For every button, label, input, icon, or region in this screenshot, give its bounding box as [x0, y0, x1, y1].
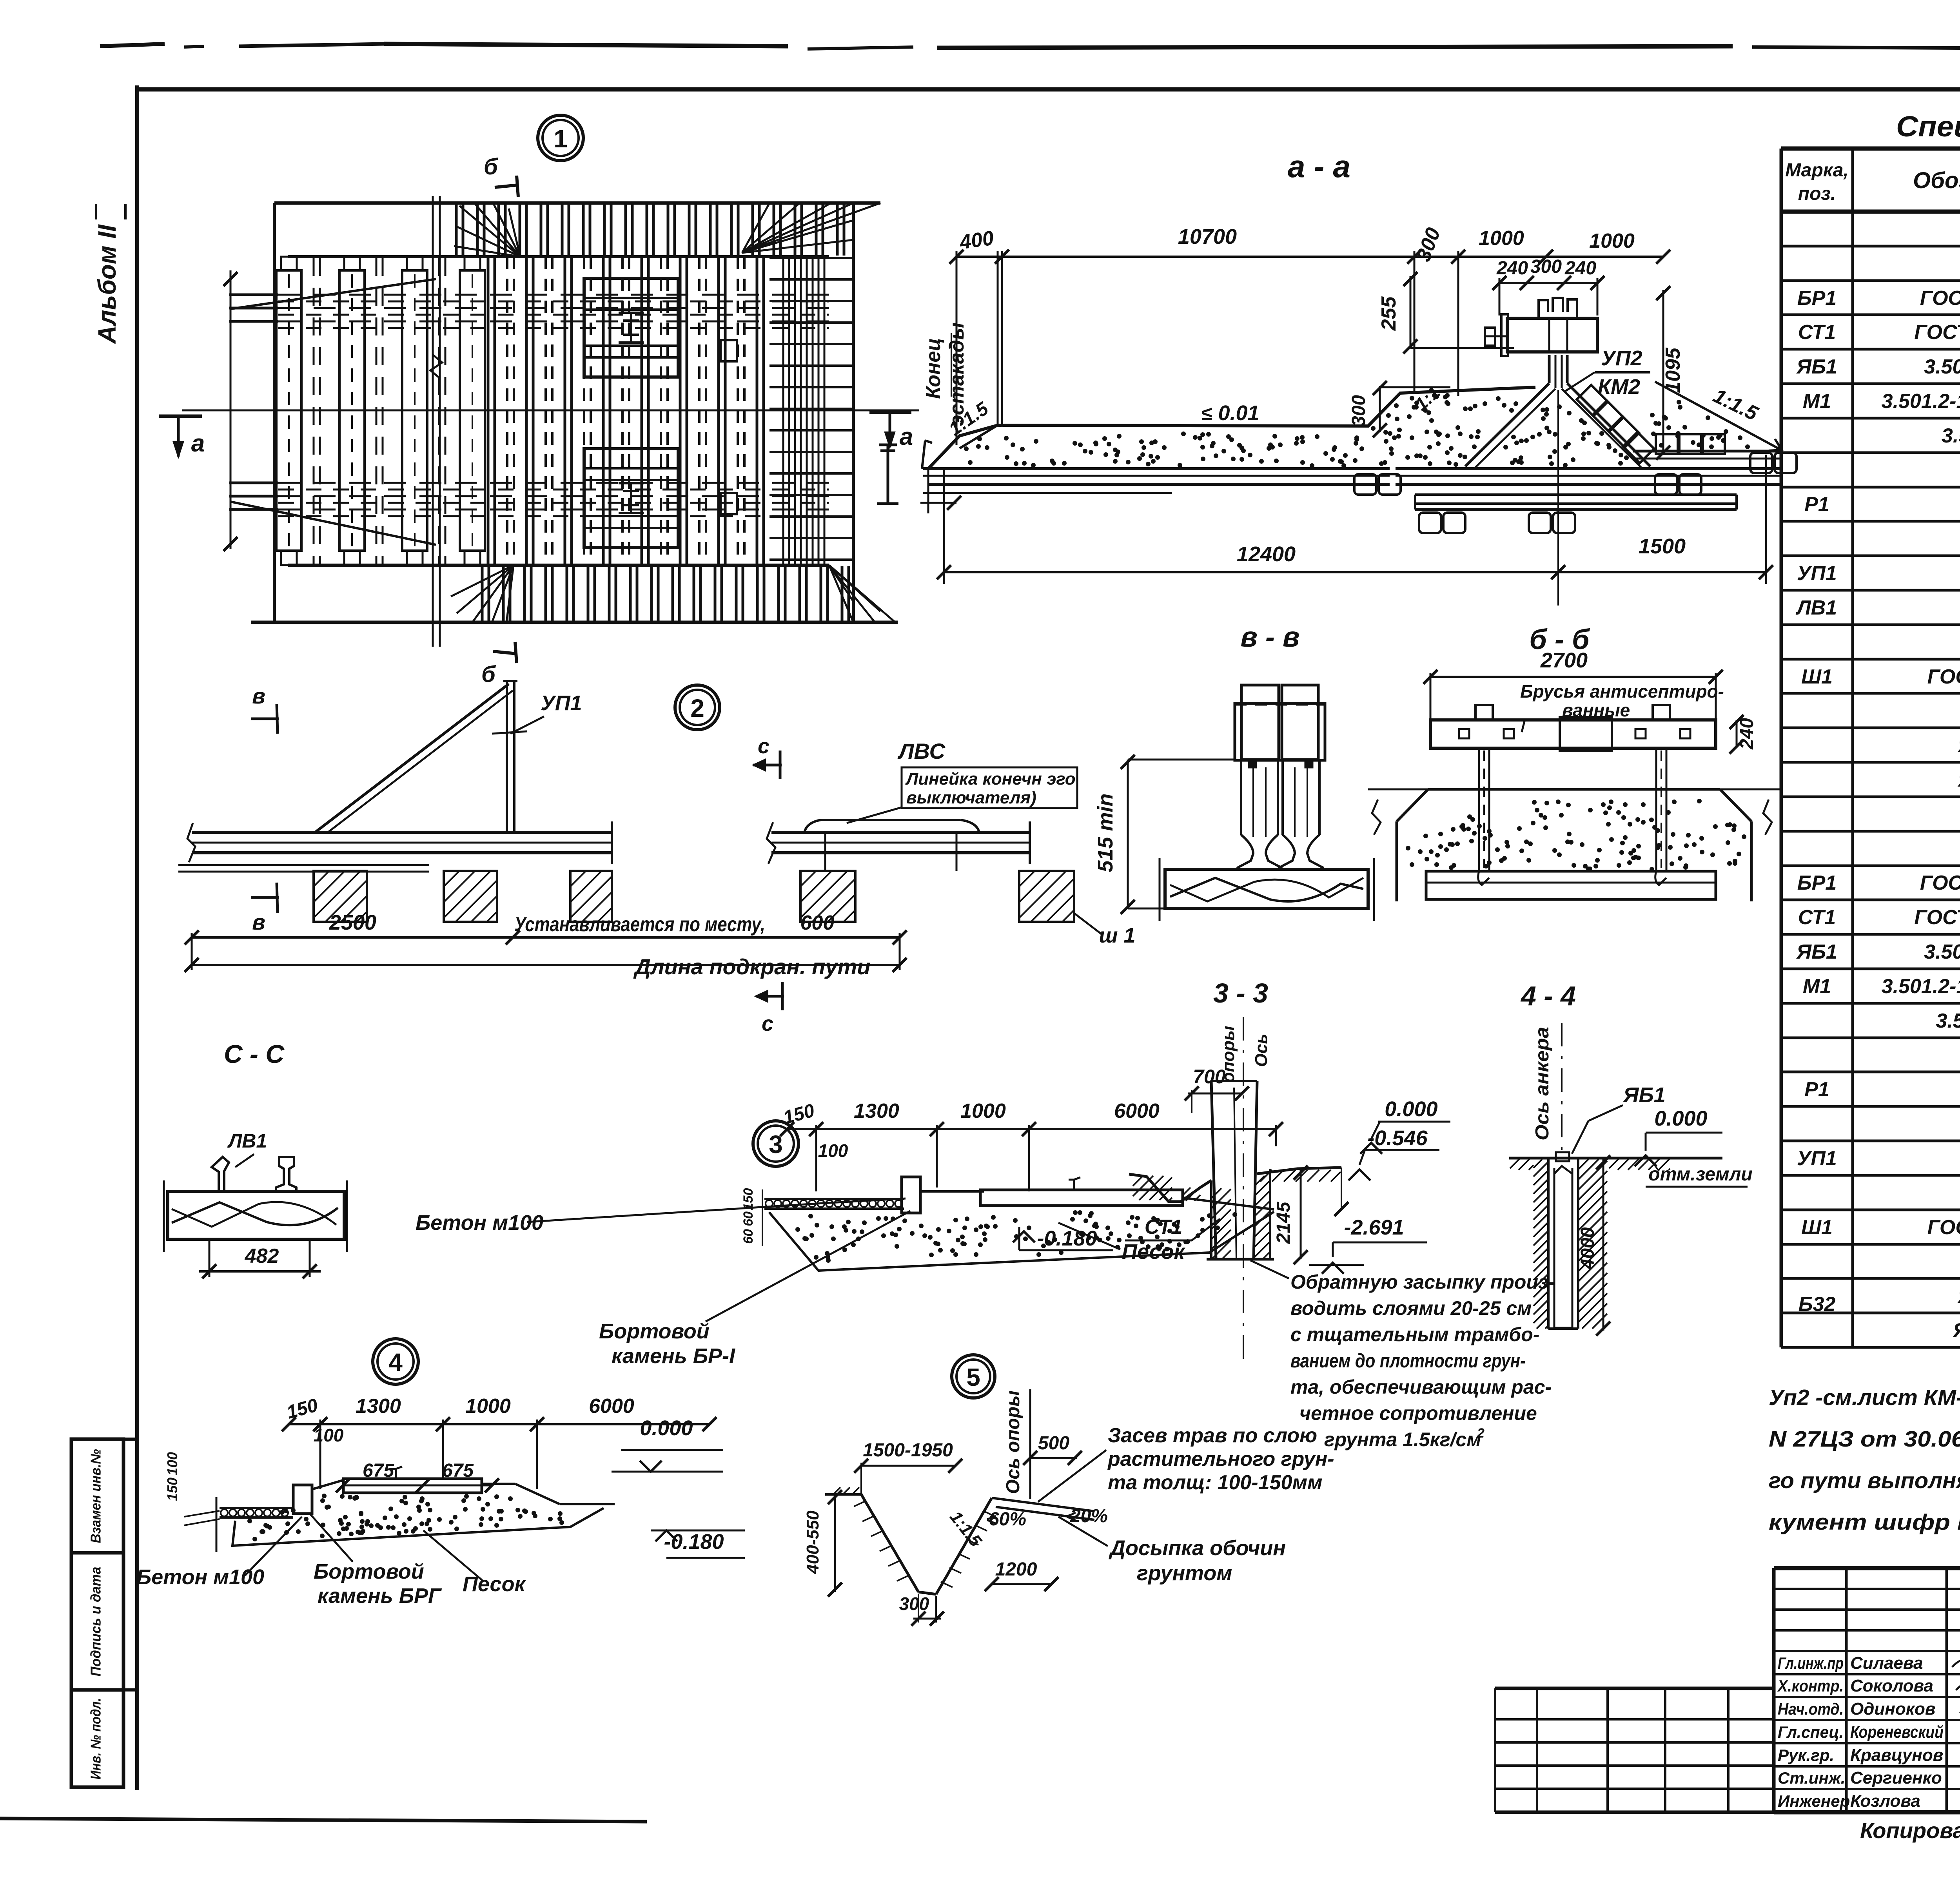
svg-text:-0.180: -0.180	[1037, 1227, 1097, 1250]
svg-text:Х.контр.: Х.контр.	[1777, 1677, 1844, 1695]
svg-text:1500-1950: 1500-1950	[863, 1440, 953, 1461]
svg-text:БР1: БР1	[1797, 872, 1837, 894]
trench 3-3	[1210, 1180, 1212, 1259]
fan top-right	[742, 203, 853, 253]
svg-text:3.501 - 106: 3.501 - 106	[1936, 1010, 1960, 1032]
small rail profile glyph right of plan	[877, 445, 898, 504]
svg-text:С - С: С - С	[224, 1039, 285, 1068]
svg-text:Засев трав по слою: Засев трав по слою	[1108, 1424, 1317, 1447]
svg-text:ванием до плотности грун-: ванием до плотности грун-	[1290, 1350, 1526, 1372]
dim 500	[1030, 1457, 1077, 1459]
svg-text:ЯС - 5: ЯС - 5	[1957, 734, 1960, 757]
bolt pairs	[1354, 474, 1376, 495]
svg-text:Нач.отд.: Нач.отд.	[1778, 1700, 1844, 1718]
mound dots	[1595, 441, 1600, 446]
svg-text:б: б	[484, 154, 499, 179]
extension verticals top dims	[956, 251, 958, 445]
svg-text:240: 240	[1496, 258, 1528, 279]
frame left vertical	[135, 85, 139, 1790]
mast bolts top	[1539, 298, 1577, 318]
detail 3 bubble	[753, 1121, 799, 1166]
svg-text:четное сопротивление: четное сопротивление	[1299, 1402, 1537, 1424]
dim 255	[1410, 276, 1412, 348]
svg-text:Длина подкран. пути: Длина подкран. пути	[633, 954, 870, 979]
svg-text:Рук.гр.: Рук.гр.	[1778, 1746, 1834, 1764]
svg-text:1300: 1300	[356, 1395, 401, 1418]
svg-text:КМ2: КМ2	[1598, 375, 1640, 399]
svg-text:4: 4	[388, 1348, 403, 1376]
specification table grid	[1781, 147, 1960, 151]
plan outline	[274, 201, 880, 205]
pit dots	[1595, 858, 1600, 863]
dim line dlina	[192, 964, 900, 966]
middle sleeper columns	[487, 257, 490, 565]
svg-text:грунта 1.5кг/см: грунта 1.5кг/см	[1324, 1429, 1481, 1450]
pit outline	[1428, 788, 1720, 791]
terrain 3-3 right	[1257, 1168, 1341, 1174]
anchor bolts	[1475, 705, 1493, 720]
top sleeper band	[455, 203, 458, 256]
svg-text:Бортовой: Бортовой	[599, 1320, 710, 1343]
svg-text:Кравцунов: Кравцунов	[1850, 1746, 1943, 1765]
svg-text:-2.691: -2.691	[1344, 1216, 1404, 1239]
pavement left	[764, 1198, 904, 1200]
svg-text:Уп2 -см.лист КМ-2. Конструкция: Уп2 -см.лист КМ-2. Конструкция упора взя…	[1769, 1385, 1960, 1410]
right slope 1:1.5	[1655, 382, 1780, 449]
svg-text:эстакады: эстакады	[946, 323, 968, 426]
svg-text:0.000: 0.000	[1385, 1097, 1437, 1121]
upor column and legs	[1548, 355, 1551, 383]
svg-text:Ш1: Ш1	[1801, 1216, 1833, 1239]
ditch profile	[825, 1493, 861, 1496]
small bolts heads	[1249, 761, 1256, 767]
svg-text:в: в	[252, 683, 265, 708]
svg-text:400-550: 400-550	[803, 1510, 822, 1574]
lineika angle glyph	[212, 1157, 229, 1191]
svg-text:Силаева: Силаева	[1850, 1653, 1923, 1673]
sidebar boxes	[71, 1439, 123, 1553]
svg-text:Сергиенко: Сергиенко	[1850, 1768, 1942, 1788]
detail 1 bubble	[538, 115, 583, 161]
svg-text:ГОСТ 6665-82: ГОСТ 6665-82	[1920, 872, 1960, 894]
svg-text:255: 255	[1377, 296, 1400, 331]
svg-text:СТ1: СТ1	[1798, 906, 1836, 929]
svg-text:300: 300	[1530, 256, 1562, 277]
svg-text:Взамен инв.№: Взамен инв.№	[88, 1449, 104, 1543]
section c marks	[779, 751, 782, 779]
frame top horizontal	[137, 87, 1960, 92]
dims top	[787, 1128, 1276, 1130]
svg-text:СТ1: СТ1	[1798, 321, 1836, 344]
bottom sleeper band	[481, 566, 484, 621]
detail 5 bubble	[952, 1355, 995, 1398]
svg-text:выключателя): выключателя)	[906, 788, 1036, 807]
svg-text:ш 1: ш 1	[1099, 924, 1135, 947]
svg-text:Б32: Б32	[1798, 1293, 1836, 1316]
detail 2 bubble	[675, 685, 720, 730]
svg-text:6000: 6000	[1114, 1100, 1160, 1122]
detail 4 bubble	[373, 1339, 418, 1384]
dim 2700	[1430, 676, 1716, 678]
dim 1095	[1662, 290, 1664, 455]
svg-text:5: 5	[966, 1363, 980, 1391]
svg-text:482: 482	[245, 1245, 279, 1267]
anchor pit 4-4	[1547, 1158, 1550, 1329]
svg-text:1000: 1000	[960, 1100, 1006, 1122]
svg-text:б: б	[481, 662, 496, 687]
right rail	[771, 831, 1030, 834]
svg-text:100: 100	[818, 1140, 848, 1161]
svg-text:6000: 6000	[589, 1395, 634, 1418]
svg-text:Линейка конечн эго: Линейка конечн эго	[905, 769, 1076, 789]
upor post	[506, 681, 508, 832]
svg-text:1: 1	[554, 125, 568, 153]
svg-text:2700: 2700	[1540, 649, 1588, 672]
svg-text:Инженер: Инженер	[1778, 1792, 1850, 1810]
svg-text:го пути выполнять согласно тр: го пути выполнять согласно требованиям п…	[1769, 1468, 1960, 1493]
left rail stub	[220, 1507, 293, 1509]
svg-text:Ось: Ось	[1252, 1034, 1271, 1067]
pit wall hatch	[1534, 1159, 1542, 1168]
svg-text:≤: ≤	[1201, 402, 1212, 424]
svg-text:500: 500	[1038, 1433, 1069, 1454]
svg-text:Конец: Конец	[922, 338, 945, 399]
rails block	[1241, 685, 1279, 760]
svg-text:ЯБ1: ЯБ1	[1796, 941, 1837, 963]
svg-text:-0.546: -0.546	[1367, 1126, 1428, 1150]
svg-text:3.501.2-128.10.0.00-02: 3.501.2-128.10.0.00-02	[1882, 390, 1960, 413]
svg-text:поз.: поз.	[1798, 183, 1836, 204]
svg-text:Бортовой: Бортовой	[314, 1560, 424, 1583]
svg-text:1000: 1000	[1479, 227, 1524, 250]
svg-text:Р1: Р1	[1804, 1078, 1829, 1101]
svg-text:2500: 2500	[329, 911, 376, 934]
svg-text:ЛВС: ЛВС	[897, 739, 946, 763]
svg-text:3 - 3: 3 - 3	[1213, 978, 1268, 1008]
svg-text:Ось опоры: Ось опоры	[1003, 1391, 1024, 1494]
rails dashed lower	[229, 482, 278, 484]
svg-text:Бетон м100: Бетон м100	[136, 1565, 264, 1589]
svg-text:ЯБ1: ЯБ1	[1796, 355, 1837, 378]
horizontal hatch right zone	[769, 257, 853, 259]
svg-text:60: 60	[741, 1229, 756, 1244]
dim 1500-1950	[861, 1465, 955, 1467]
surface d4	[312, 1480, 344, 1489]
bottom dim	[944, 571, 1766, 573]
svg-text:ГОСТ 78-65*: ГОСТ 78-65*	[1927, 665, 1960, 688]
dims top	[289, 1423, 710, 1425]
ditch hatch	[854, 1501, 866, 1507]
fan bottom-left	[457, 565, 514, 613]
svg-text:а: а	[191, 430, 205, 457]
rail profile glyph	[276, 1157, 296, 1191]
svg-text:кумент шифр КК 12,5 П-00-00: кумент шифр КК 12,5 П-00-00-00 НЭ.	[1769, 1510, 1960, 1535]
embankment surface	[928, 387, 1535, 469]
svg-text:0.01: 0.01	[1218, 401, 1259, 425]
svg-text:а: а	[900, 423, 913, 450]
rail beam left	[192, 831, 612, 834]
svg-text:растительного грун-: растительного грун-	[1107, 1448, 1334, 1470]
sand body	[769, 1212, 1274, 1271]
dim 700	[1188, 1093, 1243, 1095]
sleeper s-s	[168, 1191, 344, 1239]
sub dims 240 300 240	[1499, 282, 1597, 284]
dim 4000	[1602, 1159, 1604, 1331]
svg-text:ЯС - 7: ЯС - 7	[1957, 769, 1960, 791]
torn paper top edge	[100, 44, 165, 46]
fan top-left	[459, 206, 520, 257]
svg-text:700: 700	[1193, 1066, 1226, 1088]
right slope curbstones	[1577, 385, 1608, 416]
svg-text:<: <	[986, 1510, 996, 1529]
svg-text:3.501-105 в.2: 3.501-105 в.2	[1924, 941, 1960, 963]
svg-text:ЯБ1: ЯБ1	[1622, 1083, 1666, 1107]
dim 2145	[1300, 1170, 1302, 1259]
svg-text:1500: 1500	[1639, 535, 1686, 558]
svg-text:М1: М1	[1803, 390, 1831, 413]
svg-text:3.501-105 в.2: 3.501-105 в.2	[1924, 355, 1960, 378]
svg-text:150: 150	[164, 1478, 180, 1501]
svg-text:ЛВ1: ЛВ1	[227, 1130, 267, 1152]
svg-text:1000: 1000	[1589, 230, 1635, 252]
dim 515 min	[1127, 760, 1129, 908]
svg-text:1000: 1000	[465, 1395, 511, 1418]
svg-text:ЯС - 7: ЯС - 7	[1957, 1285, 1960, 1307]
svg-text:в - в: в - в	[1241, 622, 1300, 653]
top dim chain	[956, 256, 1663, 258]
svg-text:а - а: а - а	[1288, 149, 1350, 184]
svg-text:БР1: БР1	[1797, 287, 1837, 310]
svg-text:N 27ЦЗ от 30.06.78 г. Кре: N 27ЦЗ от 30.06.78 г. Крепление к шпалам…	[1769, 1427, 1960, 1452]
curb	[902, 1177, 920, 1213]
dims 675 675	[343, 1485, 492, 1487]
svg-text:4000: 4000	[1577, 1227, 1598, 1269]
svg-text:1300: 1300	[854, 1100, 899, 1122]
svg-text:Бетон м100: Бетон м100	[416, 1211, 543, 1235]
right embankment triangle dots	[1659, 443, 1664, 448]
svg-text:515 min: 515 min	[1094, 793, 1117, 872]
svg-text:300: 300	[899, 1594, 929, 1614]
svg-text:Одиноков: Одиноков	[1850, 1699, 1936, 1719]
svg-text:Подпись и дата: Подпись и дата	[88, 1567, 104, 1677]
svg-text:ГОСТ 19330-81: ГОСТ 19330-81	[1914, 906, 1960, 929]
right sleepers	[800, 871, 855, 922]
svg-text:2145: 2145	[1273, 1201, 1294, 1244]
svg-text:с: с	[758, 734, 769, 758]
svg-text:ЯС - 11: ЯС - 11	[1952, 1319, 1960, 1342]
rails left of upor	[923, 467, 1390, 470]
svg-text:Спецификация элементов к лис: Спецификация элементов к листу ЯС-2	[1896, 110, 1960, 143]
hidden sleepers dashed verticals	[313, 258, 315, 564]
svg-text:в: в	[252, 910, 265, 934]
svg-text:12400: 12400	[1237, 542, 1296, 566]
svg-text:2: 2	[1477, 1426, 1485, 1441]
dim 400-550	[834, 1494, 836, 1592]
svg-text:Ось анкера: Ось анкера	[1532, 1027, 1553, 1140]
svg-text:водить слоями 20-25 см: водить слоями 20-25 см	[1290, 1297, 1532, 1319]
svg-text:М1: М1	[1803, 975, 1831, 998]
svg-text:СТ1: СТ1	[1145, 1216, 1182, 1238]
svg-text:1200: 1200	[995, 1559, 1037, 1580]
svg-text:0.000: 0.000	[1654, 1107, 1707, 1130]
upor axis	[1557, 390, 1559, 606]
svg-text:УП1: УП1	[1797, 1147, 1837, 1170]
title block left grid	[1495, 1687, 1774, 1690]
curb d4	[293, 1485, 312, 1514]
svg-text:Р1: Р1	[1804, 493, 1829, 516]
left extension vertical	[997, 251, 999, 427]
plan centerline	[182, 410, 919, 412]
section mark b bottom	[493, 651, 517, 654]
svg-text:Козлова: Козлова	[1850, 1791, 1920, 1811]
svg-text:Инв. № подл.: Инв. № подл.	[88, 1698, 104, 1780]
rails upper-right elevated	[1633, 450, 1782, 453]
svg-text:УП2: УП2	[1601, 346, 1642, 370]
svg-text:4 - 4: 4 - 4	[1520, 981, 1576, 1011]
svg-text:камень БР-I: камень БР-I	[612, 1344, 735, 1368]
fan bottom-right	[829, 565, 853, 622]
svg-text:Обратную засыпку произ-: Обратную засыпку произ-	[1290, 1271, 1555, 1293]
section mark a left	[159, 415, 202, 418]
terrain 3-3 left ditch	[1129, 1174, 1211, 1202]
svg-text:0.000: 0.000	[640, 1416, 693, 1440]
slab and surface	[920, 1190, 984, 1193]
svg-text:Обозначение: Обозначение	[1913, 168, 1960, 193]
level -0.180	[1013, 1231, 1035, 1242]
anchor post	[1556, 1152, 1569, 1161]
svg-text:240: 240	[1564, 258, 1596, 279]
upor seat plates	[584, 278, 678, 377]
dim line 2500	[192, 936, 900, 939]
svg-text:ГОСТ 6665-82: ГОСТ 6665-82	[1920, 287, 1960, 310]
dim 300	[913, 1618, 941, 1620]
svg-text:2: 2	[690, 694, 704, 722]
svg-text:с тщательным трамбо-: с тщательным трамбо-	[1290, 1323, 1539, 1345]
small squares on rails	[720, 340, 737, 361]
svg-text:Песок: Песок	[463, 1572, 526, 1596]
title block	[1774, 1566, 1960, 1570]
left extension line	[230, 270, 232, 549]
dim 482	[209, 1239, 211, 1277]
svg-text:240: 240	[1737, 718, 1757, 750]
embankment dots left	[1445, 400, 1449, 405]
svg-text:с: с	[762, 1012, 773, 1035]
lineika on rail	[821, 819, 960, 821]
diagonal leaders on plan	[231, 279, 436, 309]
upor brace	[316, 684, 509, 832]
slab	[1426, 871, 1716, 899]
deck edges	[288, 255, 829, 258]
svg-text:100: 100	[164, 1452, 180, 1476]
svg-text:Альбом II: Альбом II	[93, 224, 121, 344]
sleeper v-v	[1165, 869, 1368, 908]
column 3-3	[1211, 1081, 1216, 1259]
svg-text:та, обеспечивающим рас-: та, обеспечивающим рас-	[1290, 1376, 1552, 1398]
svg-text:400: 400	[958, 227, 995, 254]
svg-text:100: 100	[314, 1425, 344, 1445]
svg-text:отм.земли: отм.земли	[1648, 1164, 1752, 1185]
svg-text:та толщ: 100-150мм: та толщ: 100-150мм	[1108, 1471, 1322, 1494]
splice bars	[1415, 493, 1737, 496]
break line pair	[432, 196, 434, 647]
svg-text:Песок: Песок	[1122, 1240, 1186, 1264]
svg-text:Устанавливается по месту,: Устанавливается по месту,	[514, 913, 765, 936]
svg-text:10700: 10700	[1178, 225, 1237, 248]
svg-text:УП1: УП1	[1797, 562, 1837, 585]
dim 300 embankment	[1379, 386, 1381, 432]
svg-text:3.501-106: 3.501-106	[1942, 424, 1960, 447]
svg-text:-0.180: -0.180	[664, 1530, 724, 1554]
svg-text:Марка,: Марка,	[1785, 160, 1849, 181]
svg-text:ГОСТ 78-65*: ГОСТ 78-65*	[1927, 1216, 1960, 1239]
ground 4-4	[1509, 1157, 1722, 1160]
svg-text:ЛВ1: ЛВ1	[1795, 596, 1837, 619]
svg-text:Досыпка обочин: Досыпка обочин	[1109, 1536, 1286, 1560]
svg-text:Ш1: Ш1	[1801, 665, 1833, 688]
section mark a right	[869, 411, 911, 414]
svg-text:ГОСТ 19330-81: ГОСТ 19330-81	[1914, 321, 1960, 344]
rails dashed upper	[229, 294, 278, 296]
sand wedge d4	[232, 1508, 604, 1546]
dim 240	[1736, 720, 1738, 748]
svg-text:Кореневский: Кореневский	[1850, 1722, 1944, 1742]
svg-text:3.501.2-128 10.0.00-02: 3.501.2-128 10.0.00-02	[1882, 975, 1960, 998]
svg-text:Копировал: Копировал	[1860, 1818, 1960, 1843]
rails right section	[1396, 467, 1782, 470]
left sparse sleepers	[276, 270, 301, 551]
svg-text:Соколова: Соколова	[1850, 1676, 1933, 1695]
svg-text:Брусья антисептиро-: Брусья антисептиро-	[1520, 681, 1724, 702]
level -0.180	[655, 1530, 677, 1541]
svg-text:грунтом: грунтом	[1137, 1561, 1232, 1585]
lower rail left	[178, 864, 429, 866]
svg-text:Ст.инж.: Ст.инж.	[1778, 1769, 1845, 1787]
svg-text:камень БРГ: камень БРГ	[318, 1584, 442, 1608]
svg-text:300: 300	[1348, 395, 1369, 426]
svg-text:Гл.спец.: Гл.спец.	[1778, 1723, 1844, 1741]
sleepers hatched	[314, 871, 367, 922]
svg-text:60: 60	[741, 1211, 756, 1226]
timber beam	[1430, 720, 1716, 748]
mast beam	[1507, 318, 1597, 352]
dim 1200	[992, 1583, 1051, 1585]
crosshatch band	[782, 257, 784, 565]
svg-text:Гл.инж.пр: Гл.инж.пр	[1778, 1654, 1844, 1672]
svg-text:УП1: УП1	[541, 691, 582, 715]
